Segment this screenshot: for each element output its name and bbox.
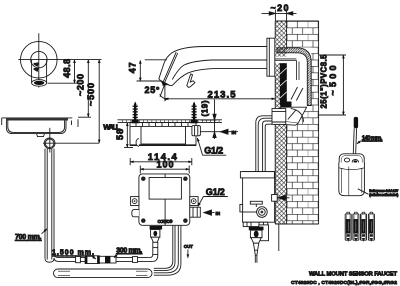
svg-text:WALL MOUNT SENSOR FAUCET: WALL MOUNT SENSOR FAUCET xyxy=(309,272,397,278)
svg-text:(19): (19) xyxy=(201,100,210,116)
svg-text:47: 47 xyxy=(128,62,138,73)
svg-text:(batteries not included): (batteries not included) xyxy=(369,193,398,197)
svg-text:48.8: 48.8 xyxy=(62,59,72,78)
svg-text:100: 100 xyxy=(157,160,174,170)
svg-text:IN: IN xyxy=(216,211,221,216)
svg-text:WALL: WALL xyxy=(103,123,120,132)
svg-text:G1/2: G1/2 xyxy=(206,187,225,197)
svg-text:~500: ~500 xyxy=(86,83,96,106)
svg-text:700 mm.: 700 mm. xyxy=(15,234,42,241)
svg-text:~500: ~500 xyxy=(328,66,338,96)
svg-text:~20: ~20 xyxy=(271,3,289,13)
svg-text:CT4920DC , CT4920DC(BL),#GR,#G: CT4920DC , CT4920DC(BL),#GR,#GG,#RG2 xyxy=(291,280,397,286)
svg-text:140 mm.: 140 mm. xyxy=(362,135,383,142)
svg-text:OUT: OUT xyxy=(184,244,193,249)
svg-text:G1/2: G1/2 xyxy=(204,146,223,156)
svg-text:~200: ~200 xyxy=(75,74,85,96)
svg-text:213.5: 213.5 xyxy=(208,90,237,101)
svg-text:1,500 mm.: 1,500 mm. xyxy=(52,250,94,257)
svg-text:IN: IN xyxy=(232,130,237,135)
svg-text:44: 44 xyxy=(35,62,41,71)
svg-text:25°: 25° xyxy=(145,85,160,95)
svg-text:25(1")PVC8.5: 25(1")PVC8.5 xyxy=(320,54,329,109)
svg-text:COTTO®: COTTO® xyxy=(158,219,174,224)
svg-text:300 mm.: 300 mm. xyxy=(116,247,142,254)
